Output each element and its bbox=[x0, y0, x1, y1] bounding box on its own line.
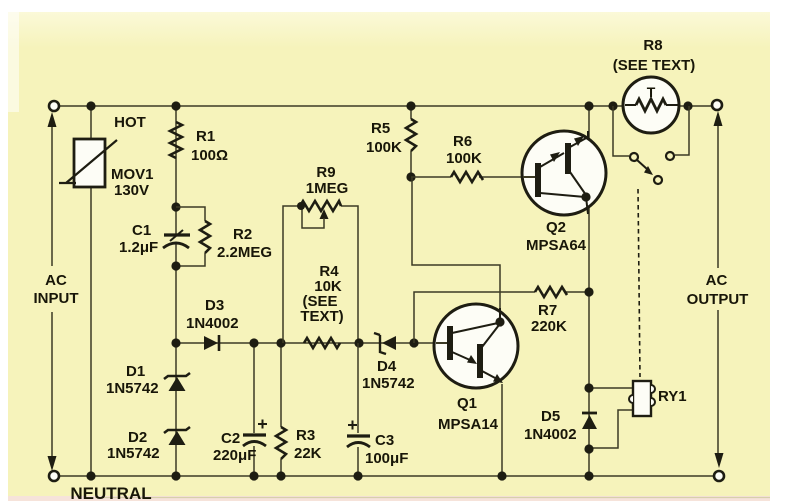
junction bbox=[276, 471, 285, 480]
svg-text:AC: AC bbox=[45, 272, 67, 289]
terminal AC output top bbox=[712, 100, 722, 110]
potentiometer R9 bridge bbox=[283, 201, 358, 343]
svg-text:INPUT: INPUT bbox=[34, 290, 79, 307]
svg-text:MPSA14: MPSA14 bbox=[438, 416, 499, 433]
svg-text:R3: R3 bbox=[296, 427, 315, 444]
label AC INPUT bbox=[34, 266, 89, 312]
wire top rail HOT bbox=[54, 105, 717, 107]
svg-text:1N5742: 1N5742 bbox=[107, 445, 160, 462]
resistor R4 bbox=[304, 338, 340, 348]
terminal AC output bottom bbox=[714, 471, 724, 481]
junction bbox=[249, 471, 258, 480]
wire bottom rail NEUTRAL bbox=[54, 475, 719, 477]
thermistor R8 bbox=[608, 77, 692, 133]
svg-text:1MEG: 1MEG bbox=[306, 180, 349, 197]
junction bbox=[406, 101, 415, 110]
svg-text:220K: 220K bbox=[531, 318, 567, 335]
svg-text:D5: D5 bbox=[541, 408, 560, 425]
relay coil RY1 bbox=[589, 381, 655, 448]
svg-text:R2: R2 bbox=[233, 226, 252, 243]
capacitor C3 branch bbox=[347, 343, 370, 476]
junction bbox=[584, 287, 593, 296]
junction bbox=[354, 338, 363, 347]
resistor R7 bbox=[535, 287, 567, 297]
node AC input line left bbox=[48, 112, 57, 471]
junction bbox=[497, 471, 506, 480]
junction bbox=[171, 261, 180, 270]
junction bbox=[276, 338, 285, 347]
resistor R3 branch bbox=[276, 343, 286, 476]
varistor MOV1 bbox=[59, 139, 117, 187]
svg-text:1N4002: 1N4002 bbox=[524, 426, 577, 443]
terminal HOT input bbox=[49, 101, 59, 111]
transistor Q1 MPSA14 bbox=[434, 304, 518, 388]
svg-text:100K: 100K bbox=[446, 150, 482, 167]
svg-text:100μF: 100μF bbox=[365, 450, 408, 467]
junction bbox=[171, 202, 180, 211]
junction bbox=[171, 471, 180, 480]
wire middle rail bbox=[176, 342, 434, 344]
junction bbox=[584, 383, 593, 392]
svg-text:1N5742: 1N5742 bbox=[362, 375, 415, 392]
wire Q1 emitter bbox=[501, 384, 503, 476]
svg-text:C1: C1 bbox=[132, 222, 151, 239]
junction bbox=[86, 101, 95, 110]
diode D3 bbox=[204, 335, 219, 351]
capacitor C1 bbox=[163, 230, 190, 248]
svg-text:T: T bbox=[647, 84, 656, 100]
svg-text:OUTPUT: OUTPUT bbox=[687, 291, 749, 308]
resistor R2 loop bbox=[176, 207, 210, 266]
diode D5 bbox=[582, 413, 597, 429]
junction bbox=[86, 471, 95, 480]
junction bbox=[249, 338, 258, 347]
svg-text:(SEE TEXT): (SEE TEXT) bbox=[613, 57, 696, 74]
svg-text:MOV1: MOV1 bbox=[111, 166, 154, 183]
switch RY1 contacts bbox=[613, 106, 689, 184]
zener D1 bbox=[164, 373, 190, 391]
svg-text:22K: 22K bbox=[294, 445, 322, 462]
svg-text:RY1: RY1 bbox=[658, 388, 687, 405]
svg-text:1.2μF: 1.2μF bbox=[119, 239, 158, 256]
svg-text:100Ω: 100Ω bbox=[191, 147, 228, 164]
zener D2 bbox=[164, 427, 190, 445]
svg-text:R1: R1 bbox=[196, 128, 215, 145]
svg-text:100K: 100K bbox=[366, 139, 402, 156]
junction bbox=[353, 471, 362, 480]
svg-text:C2: C2 bbox=[221, 430, 240, 447]
svg-text:D4: D4 bbox=[377, 358, 397, 375]
junction bbox=[171, 338, 180, 347]
terminal NEUTRAL input bbox=[49, 471, 59, 481]
resistor R6 bbox=[411, 172, 522, 182]
svg-text:R6: R6 bbox=[453, 133, 472, 150]
svg-text:2.2MEG: 2.2MEG bbox=[217, 244, 272, 261]
junction bbox=[171, 101, 180, 110]
capacitor C2 branch bbox=[243, 343, 267, 476]
resistor R5 branch bbox=[406, 106, 416, 177]
zener D4 bbox=[374, 333, 396, 354]
junction bbox=[584, 444, 593, 453]
svg-text:R7: R7 bbox=[538, 302, 557, 319]
svg-text:D2: D2 bbox=[128, 429, 147, 446]
svg-text:1N4002: 1N4002 bbox=[186, 315, 239, 332]
svg-text:HOT: HOT bbox=[114, 114, 146, 131]
wire R1/zener branch bbox=[175, 106, 177, 476]
svg-text:R5: R5 bbox=[371, 120, 390, 137]
label AC OUTPUT bbox=[687, 268, 749, 310]
svg-text:R9: R9 bbox=[316, 164, 335, 181]
junction bbox=[409, 338, 418, 347]
wire node A to Q1 collector bbox=[412, 177, 500, 322]
wire MOV branch bbox=[90, 106, 92, 476]
svg-text:R8: R8 bbox=[643, 37, 662, 54]
dashed linkage bbox=[638, 189, 640, 377]
transistor Q2 MPSA64 bbox=[522, 131, 606, 215]
svg-text:130V: 130V bbox=[114, 182, 149, 199]
wire Q2/relay vertical bbox=[588, 106, 590, 476]
svg-text:NEUTRAL: NEUTRAL bbox=[70, 484, 151, 503]
svg-text:220μF: 220μF bbox=[213, 447, 256, 464]
svg-text:Q1: Q1 bbox=[457, 395, 477, 412]
junction node A bbox=[406, 172, 415, 181]
svg-text:AC: AC bbox=[706, 272, 728, 289]
svg-text:D1: D1 bbox=[126, 363, 145, 380]
svg-text:Q2: Q2 bbox=[546, 219, 566, 236]
svg-text:TEXT): TEXT) bbox=[300, 308, 343, 325]
svg-text:D3: D3 bbox=[205, 297, 224, 314]
junction bbox=[584, 471, 593, 480]
svg-text:C3: C3 bbox=[375, 432, 394, 449]
resistor R1 bbox=[170, 122, 182, 158]
svg-text:1N5742: 1N5742 bbox=[106, 380, 159, 397]
junction bbox=[584, 101, 593, 110]
node AC output line right bbox=[714, 111, 724, 468]
wire R7 from Q1 base bbox=[414, 292, 589, 343]
svg-text:MPSA64: MPSA64 bbox=[526, 237, 587, 254]
